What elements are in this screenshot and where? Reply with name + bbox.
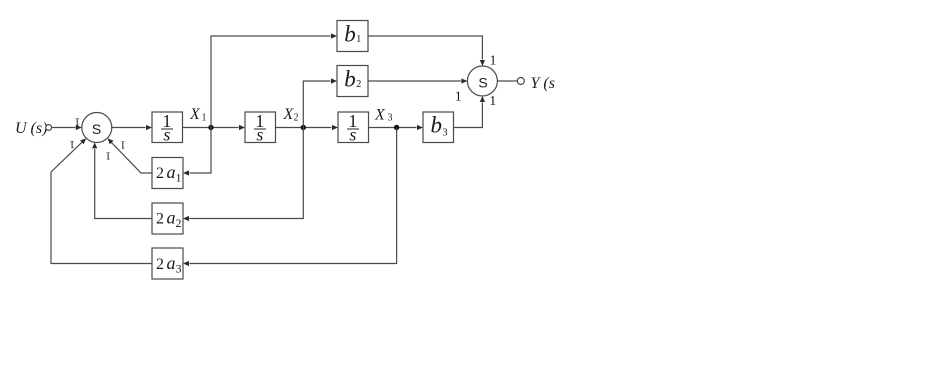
summing junction S2 bbox=[467, 66, 497, 96]
wire b1 output to summer S2 bbox=[368, 36, 485, 66]
svg-text:2: 2 bbox=[156, 256, 164, 273]
input terminal (open circle) bbox=[46, 125, 52, 131]
state label X2 bbox=[283, 106, 299, 123]
wire integrator3 to b3 bbox=[369, 125, 424, 130]
svg-text:1: 1 bbox=[69, 138, 75, 150]
feedback block 2a3 bbox=[152, 248, 183, 279]
output label Y(s) bbox=[531, 75, 555, 92]
svg-text:X: X bbox=[189, 106, 201, 123]
feedback block 2a1 bbox=[152, 158, 183, 189]
state label X3 bbox=[374, 106, 393, 123]
integrator block 1/s #1 bbox=[152, 111, 183, 144]
gain block b2 bbox=[337, 66, 368, 97]
svg-text:X: X bbox=[374, 106, 386, 123]
gain label 1 (rotated) on 2a2 feedback arrow bbox=[105, 150, 111, 162]
feedback block 2a2 bbox=[152, 203, 183, 234]
svg-text:2: 2 bbox=[156, 211, 164, 228]
svg-text:b: b bbox=[431, 113, 443, 138]
svg-text:S: S bbox=[478, 75, 487, 91]
gain label 1 on b2 path into S2 bbox=[455, 89, 462, 104]
svg-text:3: 3 bbox=[388, 113, 393, 124]
svg-text:1: 1 bbox=[202, 112, 207, 123]
wire 2a3 output to summer S1 (up and diagonal) bbox=[51, 138, 152, 263]
svg-text:a: a bbox=[167, 208, 176, 228]
integrator block 1/s #2 bbox=[245, 111, 276, 144]
gain block b1 bbox=[337, 21, 368, 52]
wire node X2 down to 2a2 bbox=[183, 128, 303, 222]
svg-text:1: 1 bbox=[455, 89, 462, 104]
svg-text:1: 1 bbox=[176, 171, 182, 185]
summing junction S1 bbox=[82, 113, 112, 143]
svg-text:1: 1 bbox=[74, 116, 80, 128]
svg-text:s: s bbox=[256, 125, 263, 145]
gain block b3 bbox=[423, 112, 454, 143]
svg-text:a: a bbox=[167, 162, 176, 182]
svg-text:s: s bbox=[349, 125, 356, 145]
wire S1 to integrator 1 bbox=[112, 125, 152, 130]
wire 2a1 output to summer S1 (diagonal) bbox=[108, 138, 153, 173]
svg-text:a: a bbox=[167, 253, 176, 273]
svg-text:b: b bbox=[344, 22, 356, 47]
node X1 (junction dot) bbox=[208, 125, 213, 130]
integrator block 1/s #3 bbox=[338, 111, 369, 144]
wire integrator1 to integrator2 bbox=[183, 125, 246, 130]
state label X1 bbox=[189, 106, 207, 123]
output terminal (open circle) bbox=[517, 78, 524, 85]
wire node X3 down to 2a3 bbox=[183, 128, 397, 267]
svg-text:Y (s: Y (s bbox=[531, 75, 555, 92]
wire node X1 down to 2a1 bbox=[183, 128, 211, 176]
wire integrator2 to integrator3 bbox=[276, 125, 339, 130]
svg-text:3: 3 bbox=[176, 261, 182, 275]
wire 2a2 output to summer S1 (vertical) bbox=[92, 142, 152, 218]
wire b2 output to summer S2 bbox=[368, 78, 467, 83]
node X3 (junction dot) bbox=[394, 125, 399, 130]
wire S2 to output terminal bbox=[497, 80, 517, 82]
svg-text:2: 2 bbox=[176, 216, 182, 230]
gain label 1 (rotated) on 2a1 feedback arrow bbox=[120, 138, 126, 150]
svg-text:s: s bbox=[163, 125, 170, 145]
wire input terminal to summer S1 bbox=[52, 125, 82, 130]
svg-text:1: 1 bbox=[356, 34, 361, 45]
svg-text:b: b bbox=[344, 67, 356, 92]
wire node X1 up to b1 bbox=[211, 33, 337, 127]
svg-text:1: 1 bbox=[490, 53, 497, 68]
svg-text:2: 2 bbox=[156, 165, 164, 182]
svg-text:S: S bbox=[92, 121, 101, 137]
svg-text:1: 1 bbox=[489, 94, 496, 109]
wire node X2 up to b2 bbox=[303, 78, 337, 127]
svg-text:U (s): U (s) bbox=[15, 120, 47, 137]
gain label 1 on b1 path into S2 bbox=[490, 53, 497, 68]
node X2 (junction dot) bbox=[301, 125, 306, 130]
gain label 1 (rotated) on 2a3 feedback arrow bbox=[69, 138, 75, 150]
gain label 1 (rotated) on input wire bbox=[74, 116, 80, 128]
input label U(s) bbox=[15, 120, 47, 137]
svg-text:2: 2 bbox=[294, 112, 299, 123]
svg-text:1: 1 bbox=[120, 138, 126, 150]
svg-text:2: 2 bbox=[356, 79, 361, 90]
gain label 1 on b3 path into S2 bbox=[489, 94, 496, 109]
svg-text:3: 3 bbox=[442, 128, 447, 139]
svg-text:1: 1 bbox=[105, 150, 111, 162]
wire b3 output to summer S2 bbox=[454, 96, 486, 128]
